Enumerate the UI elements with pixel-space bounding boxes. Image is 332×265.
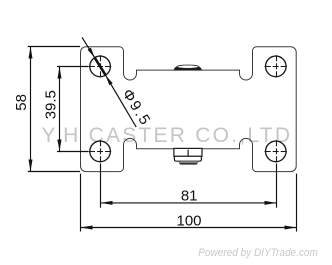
svg-text:Powered by DIYTrade.com: Powered by DIYTrade.com [198,247,317,259]
svg-text:100: 100 [176,213,201,230]
svg-text:Φ9.5: Φ9.5 [119,86,155,129]
svg-text:39.5: 39.5 [43,90,60,119]
svg-text:81: 81 [181,187,198,204]
svg-text:58: 58 [13,94,30,111]
